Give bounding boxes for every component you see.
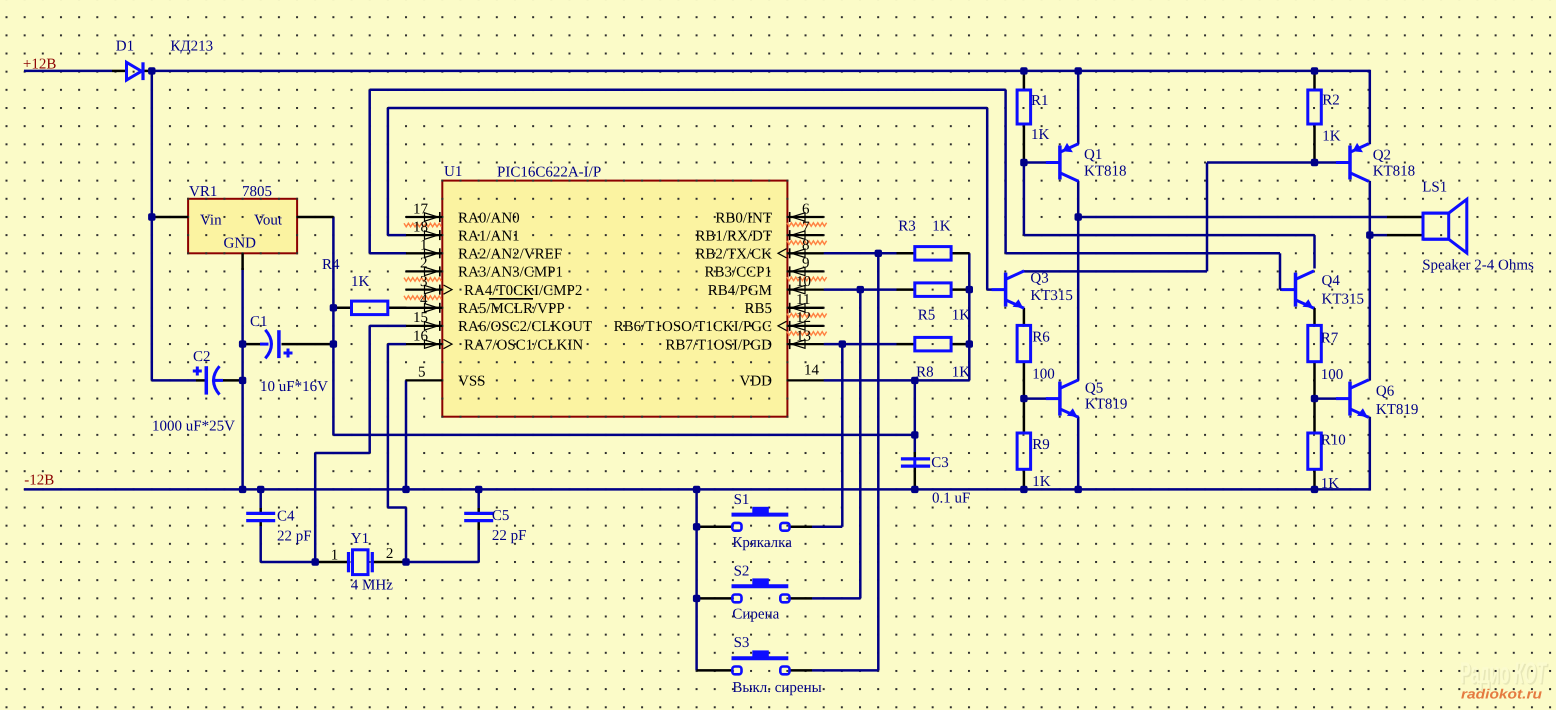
svg-text:1000 uF*25V: 1000 uF*25V [152, 419, 235, 435]
svg-text:RB1/RX/DT: RB1/RX/DT [695, 228, 772, 244]
svg-text:U1: U1 [444, 164, 462, 180]
svg-text:LS1: LS1 [1422, 180, 1447, 196]
svg-text:5: 5 [418, 364, 426, 380]
svg-text:RA6/OSC2/CLKOUT: RA6/OSC2/CLKOUT [458, 319, 592, 335]
svg-text:VSS: VSS [458, 374, 486, 390]
svg-text:Крякалка: Крякалка [732, 535, 792, 551]
svg-text:1: 1 [331, 548, 339, 564]
svg-text:1K: 1K [952, 308, 971, 324]
svg-text:S3: S3 [734, 635, 750, 651]
svg-text:RA2/AN2/VREF: RA2/AN2/VREF [458, 247, 562, 263]
svg-text:100: 100 [1032, 367, 1055, 383]
svg-text:GND: GND [224, 236, 257, 252]
svg-text:R6: R6 [1032, 330, 1050, 346]
svg-text:КД213: КД213 [170, 39, 213, 55]
svg-text:RB5: RB5 [744, 301, 772, 317]
svg-text:S1: S1 [734, 492, 750, 508]
svg-text:4: 4 [420, 292, 428, 308]
svg-text:R4: R4 [322, 257, 340, 273]
svg-text:KT819: KT819 [1376, 402, 1419, 418]
svg-text:100: 100 [1321, 367, 1344, 383]
svg-text:R9: R9 [1032, 437, 1050, 453]
svg-text:12: 12 [796, 310, 811, 326]
svg-text:11: 11 [796, 292, 810, 308]
svg-text:Сирена: Сирена [732, 607, 779, 623]
svg-text:VR1: VR1 [189, 184, 217, 200]
svg-text:RA4/T0CKI/CMP2: RA4/T0CKI/CMP2 [464, 283, 582, 299]
svg-text:Y1: Y1 [351, 531, 369, 547]
svg-text:R10: R10 [1321, 433, 1346, 449]
svg-text:1K: 1K [351, 274, 370, 290]
svg-text:Выкл. сирены: Выкл. сирены [732, 680, 821, 696]
svg-text:RB4/PGM: RB4/PGM [708, 283, 772, 299]
svg-text:9: 9 [802, 256, 810, 272]
svg-text:C2: C2 [193, 349, 211, 365]
svg-text:RB6/T1OSO/T1CKI/PGC: RB6/T1OSO/T1CKI/PGC [614, 319, 772, 335]
svg-text:2: 2 [420, 256, 428, 272]
svg-text:Q3: Q3 [1030, 271, 1048, 287]
svg-text:Q5: Q5 [1085, 381, 1103, 397]
svg-text:0.1 uF: 0.1 uF [932, 491, 970, 507]
svg-text:7: 7 [802, 219, 810, 235]
svg-text:7805: 7805 [242, 184, 272, 200]
svg-text:17: 17 [413, 201, 429, 217]
svg-text:8: 8 [802, 238, 810, 254]
svg-text:Speaker 2-4 Ohms: Speaker 2-4 Ohms [1422, 258, 1534, 274]
svg-text:VDD: VDD [740, 374, 773, 390]
svg-text:Vout: Vout [254, 213, 283, 229]
svg-text:10: 10 [796, 274, 811, 290]
svg-text:RA3/AN3/CMP1: RA3/AN3/CMP1 [458, 265, 563, 281]
svg-text:RA0/AN0: RA0/AN0 [458, 210, 520, 226]
svg-text:RB3/CCP1: RB3/CCP1 [704, 265, 772, 281]
svg-text:D1: D1 [116, 39, 134, 55]
svg-text:KT818: KT818 [1084, 164, 1127, 180]
svg-text:Vin: Vin [200, 213, 222, 229]
svg-text:13: 13 [796, 328, 811, 344]
svg-text:R3: R3 [898, 219, 916, 235]
svg-text:15: 15 [413, 310, 428, 326]
svg-text:1K: 1K [1032, 474, 1051, 490]
svg-text:Q6: Q6 [1376, 384, 1395, 400]
svg-text:16: 16 [413, 328, 429, 344]
svg-text:KT315: KT315 [1030, 288, 1073, 304]
svg-text:1K: 1K [952, 365, 971, 381]
svg-text:C1: C1 [250, 314, 268, 330]
svg-text:RB7/T1OSI/PGD: RB7/T1OSI/PGD [665, 337, 772, 353]
svg-text:C4: C4 [277, 509, 295, 525]
svg-text:Q1: Q1 [1084, 147, 1102, 163]
svg-text:RB0/INT: RB0/INT [715, 210, 772, 226]
svg-text:R5: R5 [918, 308, 936, 324]
svg-text:RB2/TX/CK: RB2/TX/CK [695, 247, 772, 263]
svg-text:6: 6 [802, 201, 810, 217]
svg-text:1K: 1K [1031, 127, 1050, 143]
svg-text:C3: C3 [931, 455, 949, 471]
svg-text:1: 1 [420, 238, 428, 254]
svg-text:10 uF*16V: 10 uF*16V [260, 379, 328, 395]
svg-text:R2: R2 [1322, 93, 1340, 109]
svg-text:-12В: -12В [24, 473, 54, 489]
svg-text:22 pF: 22 pF [277, 529, 312, 545]
svg-text:2: 2 [386, 546, 394, 562]
svg-text:PIC16C622A-I/P: PIC16C622A-I/P [497, 165, 601, 181]
svg-text:1K: 1K [1322, 129, 1341, 145]
svg-text:R1: R1 [1031, 93, 1049, 109]
svg-text:+12В: +12В [23, 57, 56, 73]
svg-text:RA5/MCLR/VPP: RA5/MCLR/VPP [458, 301, 565, 317]
svg-text:R7: R7 [1321, 331, 1339, 347]
svg-text:KT818: KT818 [1373, 164, 1416, 180]
svg-text:C5: C5 [492, 508, 510, 524]
svg-text:18: 18 [413, 219, 428, 235]
svg-text:4 MHz: 4 MHz [351, 578, 393, 594]
svg-text:KT819: KT819 [1085, 397, 1128, 413]
svg-text:Q4: Q4 [1322, 273, 1341, 289]
svg-text:1K: 1K [1321, 476, 1340, 492]
svg-text:RA1/AN1: RA1/AN1 [458, 228, 520, 244]
svg-text:R8: R8 [916, 365, 934, 381]
svg-text:RA7/OSC1/CLKIN: RA7/OSC1/CLKIN [464, 337, 583, 353]
svg-text:Q2: Q2 [1373, 148, 1391, 164]
svg-text:S2: S2 [734, 564, 750, 580]
svg-text:3: 3 [420, 274, 428, 290]
svg-text:1K: 1K [932, 219, 951, 235]
svg-text:22 pF: 22 pF [492, 528, 527, 544]
svg-text:KT315: KT315 [1322, 292, 1365, 308]
svg-text:14: 14 [804, 362, 820, 378]
